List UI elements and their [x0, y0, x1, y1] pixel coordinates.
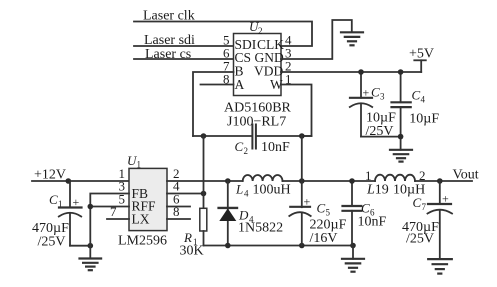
pin number 1 [119, 166, 126, 181]
svg-text:LX: LX [132, 212, 150, 227]
svg-text:10nF: 10nF [358, 215, 387, 230]
svg-text:Vout: Vout [453, 168, 479, 183]
capacitor C5 plus plate [290, 206, 310, 208]
capacitor C1 lower lead [69, 214, 71, 246]
node +5V supply tap [414, 60, 426, 72]
wire bottom rail [204, 245, 354, 247]
wire L19 to Vout [415, 180, 472, 182]
svg-text:/16V: /16V [310, 231, 338, 246]
ground at U2 GND [341, 32, 363, 45]
pin number 3 [119, 179, 126, 194]
diode D4 cathode bar [219, 207, 237, 209]
pin number L19 2 [419, 168, 426, 183]
junction dot C2-R1 [201, 133, 207, 139]
svg-text:2: 2 [244, 146, 249, 156]
junction dot C2 right [299, 133, 305, 139]
wire Laser clk to U2 pin4 [134, 22, 312, 47]
svg-text:3: 3 [380, 92, 385, 102]
diode D4 part 1N5822 [238, 221, 283, 236]
op-amp U2 AD5160BR body [234, 34, 282, 96]
capacitor C3 value /25V [366, 124, 394, 139]
capacitor C3 curved plate [350, 103, 372, 107]
pin number 7 [110, 204, 117, 219]
svg-text:4: 4 [421, 95, 426, 105]
svg-text:A: A [235, 77, 245, 92]
pin number 2 [285, 59, 292, 74]
svg-text:C: C [371, 85, 380, 100]
junction dot D4 bottom [225, 243, 231, 249]
wire C1 to ground rail [70, 245, 90, 247]
ground below C3 C4 [390, 150, 412, 162]
pin number 5 [119, 192, 126, 207]
wire L4 to L19 [283, 180, 376, 182]
junction dot VDD-C3 [358, 69, 364, 75]
capacitor C5 label [317, 201, 331, 218]
capacitor C3 lower lead [360, 105, 362, 137]
inductor L19 label [366, 183, 389, 198]
ground at rail end [342, 259, 364, 272]
capacitor C6 label [361, 201, 375, 218]
capacitor C3 plus sign [363, 86, 370, 100]
capacitor C4 plates [392, 102, 411, 107]
capacitor C2 plates [252, 125, 256, 149]
ground below C7 [428, 259, 452, 274]
diode D4 triangle [219, 208, 236, 221]
junction dot C4 bottom [398, 134, 404, 140]
ground below C1 [80, 259, 102, 271]
wire C2 right node down to L4 output [301, 136, 303, 181]
svg-text:7: 7 [422, 202, 427, 212]
svg-text:4: 4 [244, 189, 249, 199]
svg-text:+: + [363, 86, 370, 100]
inductor L19 coil [375, 175, 415, 181]
capacitor C1 plus plate [59, 206, 82, 208]
pin number 8 [173, 204, 180, 219]
pin number 4 [285, 33, 292, 48]
capacitor C4 lower lead to ground [400, 108, 402, 150]
wire U2 pin1 W down to C2 right node [281, 85, 312, 137]
svg-text:C: C [317, 201, 326, 216]
capacitor C3 plus plate [350, 97, 372, 99]
capacitor C7 plus sign [442, 192, 449, 206]
node +5V label [409, 47, 434, 62]
svg-text:2: 2 [258, 26, 263, 36]
wire U2 pin8 A stub [201, 84, 234, 86]
wire U1 pin4 to R1 [167, 193, 204, 195]
wire +12V to U1 pin1 [32, 180, 129, 182]
diode D4 lead [227, 181, 229, 246]
capacitor C4 value 10uF [409, 112, 439, 127]
svg-text:L: L [366, 183, 375, 198]
capacitor C7 label [413, 195, 427, 212]
capacitor C3 label [371, 85, 385, 102]
node Laser clk label [143, 9, 195, 24]
svg-text:C: C [413, 195, 422, 210]
svg-text:10nF: 10nF [261, 140, 290, 155]
inductor L4 label [235, 182, 249, 199]
wire R1 bottom to rail [203, 231, 205, 246]
svg-text:/25V: /25V [406, 232, 434, 247]
svg-text:AD5160BR: AD5160BR [224, 101, 292, 116]
wire U1 pin8 stub [167, 218, 190, 220]
junction dot pin4 R1 [201, 191, 207, 197]
pin number 6 [223, 46, 230, 61]
wire FB RFF column [90, 194, 129, 246]
junction dot C7 top [437, 178, 443, 184]
pin number 2 [173, 166, 180, 181]
capacitor C5 curved plate [289, 212, 310, 216]
node Vout label [453, 168, 479, 183]
junction dot VDD-C4 [398, 69, 404, 75]
op-amp U1 reference label [127, 153, 141, 170]
capacitor C1 value 470uF [32, 221, 69, 236]
wire C2 net left segment [193, 135, 252, 137]
capacitor C7 value 470uF [402, 220, 439, 235]
capacitor C5 value 220uF [310, 218, 347, 233]
capacitor C5 plus sign [304, 195, 311, 209]
wire ground stem C1 [89, 246, 91, 259]
wire C2 left node down through pin4 to R1 top [203, 136, 205, 208]
junction dot C6 top [349, 178, 355, 184]
wire U1 pin2 to L4 [167, 180, 243, 182]
svg-text:+5V: +5V [409, 47, 434, 62]
op-amp U2 reference label [249, 19, 263, 36]
svg-text:1: 1 [365, 168, 372, 183]
svg-text:10µF: 10µF [409, 112, 439, 127]
op-amp U2 part number AD5160BR [224, 101, 292, 116]
node Laser cs label [145, 47, 191, 62]
capacitor C4 upper lead [400, 72, 402, 102]
wire U2 pin3 GND to ground [281, 20, 352, 59]
pin number 4 [173, 179, 180, 194]
wire RFF to column [90, 206, 129, 208]
junction dot +12V C1 [66, 178, 72, 184]
capacitor C7 plus plate [428, 203, 451, 205]
svg-text:LM2596: LM2596 [118, 234, 167, 249]
capacitor C6 plates [343, 206, 362, 211]
junction dot ground rail [88, 243, 94, 249]
capacitor C3 upper lead [360, 72, 362, 98]
junction dot C5 bottom [299, 243, 305, 249]
capacitor C3 value 10uF [366, 111, 396, 126]
capacitor C6 value 10nF [358, 215, 387, 230]
svg-text:19: 19 [375, 183, 389, 198]
wire Laser cs to U2 pin6 [134, 58, 234, 60]
svg-text:L: L [235, 182, 243, 197]
junction dot L4 input [225, 178, 231, 184]
wire Laser sdi to U2 pin5 [134, 45, 234, 47]
svg-text:C: C [235, 139, 244, 154]
wire C3 to C4 bottom rail [361, 136, 401, 138]
wire U2 pin2 VDD to +5V rail [281, 71, 421, 73]
capacitor C7 lower lead [439, 211, 441, 260]
wire U2 pin7 B down to C2 net [193, 72, 234, 136]
svg-text:C: C [412, 88, 421, 103]
svg-text:C: C [361, 201, 370, 216]
capacitor C1 label [49, 192, 63, 209]
op-amp U2 part number J100-RL7 [227, 115, 286, 130]
svg-text:1: 1 [137, 160, 142, 170]
capacitor C5 upper lead [301, 181, 303, 207]
wire U1 pin6 stub [167, 206, 190, 208]
svg-text:30K: 30K [180, 244, 204, 259]
svg-text:C: C [49, 192, 58, 207]
diode D4 label [238, 208, 254, 225]
capacitor C2 value 10nF [261, 140, 290, 155]
capacitor C5 lower lead [301, 214, 303, 246]
op-amp U1 part number LM2596 [118, 234, 167, 249]
capacitor C7 value /25V [406, 232, 434, 247]
pin number 7 [223, 59, 230, 74]
capacitor C4 label [412, 88, 426, 105]
junction dot rail end [350, 243, 356, 249]
pin number 3 [285, 46, 292, 61]
inductor L4 coil [243, 175, 283, 181]
wire C2 net right segment [257, 135, 312, 137]
op-amp U2 pin names [235, 37, 285, 92]
capacitor C2 label [235, 139, 249, 156]
svg-text:/25V: /25V [38, 235, 66, 250]
capacitor C6 lower lead [351, 211, 353, 246]
capacitor C7 curved plate [428, 210, 453, 214]
svg-text:5: 5 [326, 208, 331, 218]
capacitor C1 upper lead [69, 181, 71, 208]
pin number L19 1 [365, 168, 372, 183]
junction dot RFF column [88, 204, 94, 210]
inductor L4 value 100uH [253, 183, 291, 198]
op-amp U1 pin names [132, 186, 157, 227]
capacitor C6 upper lead [351, 181, 353, 205]
op-amp U1 LM2596 body [129, 168, 167, 230]
wire ground stem rail end [352, 246, 354, 259]
pin number 5 [223, 33, 230, 48]
svg-text:100uH: 100uH [253, 183, 291, 198]
wire LX stub [107, 218, 129, 220]
pin number 6 [173, 192, 180, 207]
node +12V label [34, 168, 66, 183]
node Laser sdi label [144, 33, 195, 48]
capacitor C7 upper lead [439, 181, 441, 204]
junction dot L4 output [299, 178, 305, 184]
svg-text:1N5822: 1N5822 [238, 221, 283, 236]
resistor R1 value 30K [180, 244, 204, 259]
capacitor C1 curved plate [59, 213, 81, 217]
capacitor C1 value /25V [38, 235, 66, 250]
capacitor C1 plus sign [73, 195, 80, 209]
resistor R1 label [183, 230, 198, 247]
pin number 1 [285, 72, 292, 87]
capacitor C5 value /16V [310, 231, 338, 246]
inductor L19 value 10uH [393, 183, 425, 198]
resistor R1 body [200, 208, 207, 231]
pin number 8 [223, 72, 230, 87]
